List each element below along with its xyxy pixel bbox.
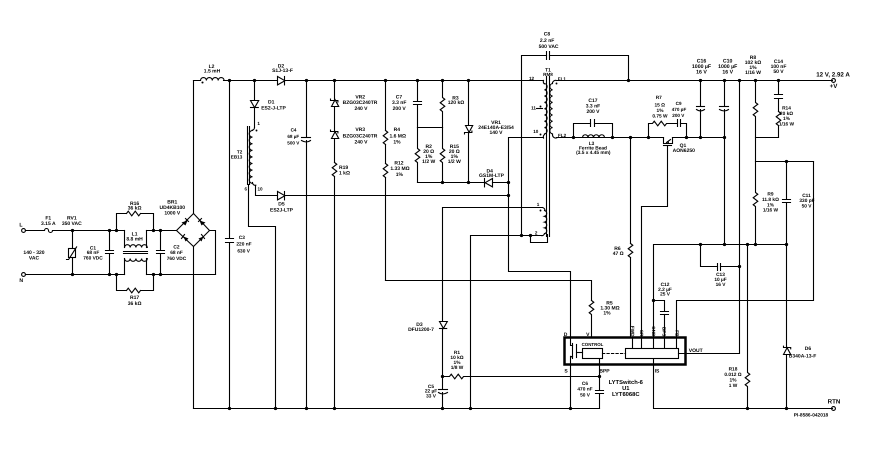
node C7 top [416,79,419,82]
capacitor C1 [83,231,113,275]
svg-text:R9: R9 [767,192,773,198]
node pin2 detour [529,234,532,237]
svg-text:1 kΩ: 1 kΩ [339,170,350,176]
wire V-sense feed to R5 [386,281,592,301]
resistor R9 [753,162,779,245]
node D3 C5 R1 junction [441,375,444,378]
svg-text:1%: 1% [657,108,665,114]
diode D3 [408,322,447,334]
node C2 top [159,229,162,232]
svg-text:500 V: 500 V [287,140,300,145]
diode D5 [270,192,294,214]
svg-text:1%: 1% [603,310,611,316]
wire V-sense column [385,81,387,281]
node C16 top [699,79,702,82]
svg-text:IS: IS [655,369,660,375]
node R8 top [754,79,757,82]
resistor R16 [117,201,154,231]
inductor L1 common-mode choke [124,231,148,275]
wire BPS pin riser [664,315,666,338]
U1 secondary block [626,349,679,359]
resistor R6 [613,244,633,258]
svg-text:16 V: 16 V [716,282,727,288]
svg-text:1%: 1% [730,378,738,384]
svg-text:8.8 mH: 8.8 mH [126,237,143,243]
transformer T1 bias winding [535,202,547,236]
svg-text:1/8 W: 1/8 W [451,365,464,371]
wire R8 R14 join to FB node [756,138,814,162]
svg-text:16 V: 16 V [696,69,707,75]
wire output rail [557,80,833,82]
svg-text:25 V: 25 V [660,292,671,298]
label 140-320 VAC [23,250,44,262]
svg-text:ES2J-LTP: ES2J-LTP [270,207,294,213]
svg-text:1: 1 [257,121,260,126]
resistor R2 [415,128,435,183]
svg-text:N: N [19,278,23,284]
wire L line [26,230,177,232]
svg-text:16 V: 16 V [722,69,733,75]
svg-text:DFU1200-7: DFU1200-7 [408,327,434,333]
U1 part labels [609,379,644,398]
svg-text:10: 10 [257,187,263,192]
node pin2 rail [469,407,472,410]
svg-text:C2: C2 [173,244,179,250]
svg-text:36 kΩ: 36 kΩ [128,206,142,212]
svg-text:68 µF: 68 µF [287,134,299,139]
U1 dashed link [603,353,626,355]
node R9 bottom [754,243,757,246]
node C2 bottom [159,273,162,276]
node D4 to drain riser [507,181,510,184]
terminal +V output [816,71,850,90]
node zener column bottom [333,407,336,410]
capacitor C14 [771,59,787,112]
svg-text:AON6250: AON6250 [673,148,695,154]
node C9 right [685,136,688,139]
svg-text:VAC: VAC [29,256,40,262]
svg-text:20 kΩ: 20 kΩ [780,111,793,117]
wire Q1 gate to SR pin [642,146,668,338]
svg-text:(3.5 x 4.45 mm): (3.5 x 4.45 mm) [576,150,611,156]
svg-text:1%: 1% [767,202,775,208]
resistor R14 [776,106,794,138]
svg-text:D: D [564,332,568,338]
resistor R1 [443,350,600,379]
node R6 top [629,136,632,139]
capacitor C4 [287,128,310,146]
svg-text:CONTROL: CONTROL [582,342,604,347]
svg-text:11.8 kΩ: 11.8 kΩ [762,197,779,203]
node D5 line to drain riser [507,194,510,197]
svg-text:0.012 Ω: 0.012 Ω [724,372,741,378]
zener VR3 [331,127,378,145]
resistor R8 [745,55,762,138]
svg-text:68 nF: 68 nF [170,250,183,256]
svg-text:3.15 A: 3.15 A [41,221,56,227]
resistor R12 [383,160,409,178]
svg-text:R18: R18 [729,367,738,373]
svg-text:EB13: EB13 [231,155,243,160]
svg-text:LYT6068C: LYT6068C [612,391,640,398]
svg-text:C8: C8 [544,32,551,38]
U1 internal mosfet [571,338,583,366]
transformer T1 [529,67,567,236]
wire BPP pin [599,359,601,409]
svg-text:15 Ω: 15 Ω [654,102,665,108]
wire D5 output to drain riser [285,195,509,197]
svg-text:200 V: 200 V [586,109,600,115]
node C16 bottom [699,136,702,139]
node R16 right [152,229,155,232]
wire IS pin to RTN rail [654,366,833,409]
capacitor C11 [783,162,815,245]
U1 pin labels [564,326,703,375]
node D6 bottom [785,407,788,410]
IC U1 box [565,338,686,365]
wire clamp mid junction [418,127,443,129]
resistor R15 [440,128,461,183]
node C10 gnd [723,243,726,246]
svg-text:630 V: 630 V [237,248,250,254]
svg-text:50 V: 50 V [580,393,591,399]
wire C3 column [229,81,231,409]
capacitor C9 [669,101,687,138]
svg-text:+V: +V [830,83,839,90]
wire bottom rail [194,408,600,410]
transformer T2 [231,121,263,192]
svg-text:470 nF: 470 nF [577,387,592,393]
svg-text:12 V, 2.92 A: 12 V, 2.92 A [816,71,850,78]
svg-text:RTN: RTN [828,399,841,406]
svg-text:1/16 W: 1/16 W [745,70,761,76]
wire primary top rail [194,80,544,82]
node R1 to BPP [598,375,601,378]
svg-text:LYTSwitch-6: LYTSwitch-6 [609,379,644,386]
svg-text:33 V: 33 V [426,393,437,399]
svg-text:140 V: 140 V [489,130,503,136]
node R18 bottom [746,407,749,410]
svg-text:C9: C9 [676,101,682,106]
capacitor C10 [718,59,737,245]
svg-text:PI-8586-042018: PI-8586-042018 [794,412,829,418]
svg-text:1/16 W: 1/16 W [779,121,795,127]
node C10 top [723,79,726,82]
svg-text:10: 10 [533,129,539,134]
node C13 left [699,243,702,246]
svg-text:RM8: RM8 [543,72,553,77]
svg-text:2.2 nF: 2.2 nF [540,38,554,44]
zener VR2 [331,95,378,112]
svg-text:12: 12 [529,76,535,81]
svg-text:1.5 mH: 1.5 mH [204,69,221,75]
terminal N [19,273,25,284]
wire BR1 plus to top rail [193,81,195,214]
node C12 jog on gnd riser [652,299,655,302]
svg-text:120 kΩ: 120 kΩ [448,100,465,106]
diode D4 [479,168,508,187]
wire T1 pin2 return [471,236,543,409]
svg-text:1%: 1% [783,116,791,122]
svg-text:36 kΩ: 36 kΩ [128,301,142,307]
node C17 right [611,136,614,139]
terminal L [19,223,25,233]
capacitor C13 [701,245,740,288]
node C8 left pin2 [520,234,523,237]
svg-text:200 V: 200 V [672,113,685,118]
svg-text:C4: C4 [291,128,297,133]
resistor R3 [440,81,464,128]
fuse F1 [41,216,56,233]
U1 secondary block pin stubs [633,338,677,366]
svg-text:C3: C3 [239,235,245,241]
svg-text:1%: 1% [396,172,404,178]
svg-text:GS1M-LTP: GS1M-LTP [479,173,505,179]
diode D1 [251,81,287,128]
wire FB pin line [677,162,814,338]
svg-text:2: 2 [535,231,538,236]
wire T1 pin2 detour [531,235,548,243]
wire C4 column [306,81,308,409]
resistor R7 [649,95,669,137]
node R3 top [441,79,444,82]
node T2 pin6 rail [274,407,277,410]
node C13 right on VOUT riser [738,265,741,268]
wire zener column [334,81,336,409]
svg-text:330 pF: 330 pF [799,198,814,204]
node VR1 bottom [467,181,470,184]
wire T1 pin10 drain route [509,138,571,338]
node C3 bottom [228,407,231,410]
node C1 bottom [108,273,111,276]
wire GND pin riser and gnd line [654,245,787,338]
node C10 switchwire [723,136,726,139]
svg-text:0.75 W: 0.75 W [652,114,668,120]
svg-text:220 nF: 220 nF [236,242,251,248]
svg-text:D6: D6 [805,346,812,352]
capacitor C8 [522,32,629,236]
svg-text:1000 V: 1000 V [164,211,181,217]
svg-text:50 V: 50 V [773,69,784,75]
terminal RTN [828,399,841,411]
node D1 top [253,79,256,82]
wire BR1 AC2 return [210,231,216,275]
U1 control block [582,342,604,359]
node C4 top [305,79,308,82]
node C11 top [785,160,788,163]
wire N line [26,274,216,276]
node V-sense top [384,79,387,82]
svg-text:47 Ω: 47 Ω [613,251,624,257]
capacitor C12 [654,282,672,315]
node R7 left [647,136,650,139]
capacitor C2 [157,231,187,275]
svg-text:1/2 W: 1/2 W [422,159,435,165]
node C3 top [228,79,231,82]
capacitor C17 [574,98,613,137]
svg-text:50 V: 50 V [802,204,813,210]
svg-text:D1: D1 [268,99,275,105]
capacitor C5 [425,384,448,400]
node RV1 top [71,229,74,232]
inductor L3 ferrite bead [576,135,611,156]
capacitor C7 [392,81,422,128]
wire BR1 minus to bottom rail [193,247,195,409]
zener VR1 [465,81,515,183]
node VR1 top [467,79,470,82]
node RV1 bottom [71,273,74,276]
svg-text:R7: R7 [656,95,662,101]
node R16 left [115,229,118,232]
node VOUT rail [738,79,741,82]
resistor R18 [724,245,749,409]
node C11 bottom gnd end [785,243,788,246]
node S pin rail [569,407,572,410]
transistor Q1 [664,138,696,155]
diode D2 [272,63,293,85]
wire D3 to C5 [442,329,444,409]
inductor L2 [201,64,225,84]
svg-text:1/2 W: 1/2 W [448,159,461,165]
wire VOUT pin riser [679,81,740,354]
svg-text:1%: 1% [393,139,401,145]
node C8 right rail [627,79,630,82]
svg-text:470 pF: 470 pF [672,107,687,112]
node C17 left [572,136,575,139]
svg-text:6: 6 [245,187,248,192]
svg-text:760 VDC: 760 VDC [167,256,187,262]
diode D6 [784,245,817,409]
svg-text:C6: C6 [582,381,588,387]
svg-text:R14: R14 [782,106,791,112]
svg-text:VR3: VR3 [355,127,365,133]
wire T1 pin1 to D3 [443,208,543,322]
resistor R5 [589,300,619,337]
svg-text:200 V: 200 V [393,106,407,112]
svg-text:BPP: BPP [599,369,610,375]
svg-text:500 VAC: 500 VAC [539,44,559,50]
resistor R19 [332,163,350,177]
svg-text:B340A-13-F: B340A-13-F [789,354,817,360]
svg-text:1/16 W: 1/16 W [763,208,779,214]
svg-text:R4: R4 [394,127,401,133]
svg-text:760 VDC: 760 VDC [83,255,103,261]
resistor R4 [383,127,406,145]
svg-text:1 W: 1 W [729,383,738,389]
wire T2 pin6 return [249,185,276,409]
svg-text:1: 1 [537,202,540,207]
wire FWD R6 column [630,138,632,338]
node C14 top [777,79,780,82]
svg-text:240 V: 240 V [354,106,368,112]
resistor R17 [117,275,154,307]
svg-text:350 VAC: 350 VAC [62,221,82,227]
capacitor C6 [577,381,603,399]
node R17 right [152,273,155,276]
svg-text:240 V: 240 V [354,139,368,145]
varistor RV1 [62,216,82,275]
bridge rectifier BR1 [160,199,210,246]
wire clamp bottom line [418,182,485,184]
node R15 bottom [441,181,444,184]
wire secondary switch node [557,137,725,139]
wire T2 pin10 to D5 [256,186,278,196]
node C4 bottom [305,407,308,410]
node R18 top [746,243,749,246]
node zener column top [333,79,336,82]
svg-text:68 nF: 68 nF [87,250,100,256]
capacitor C3 [226,235,252,255]
wire S pin [570,366,572,409]
svg-text:11: 11 [531,106,536,111]
svg-text:C11: C11 [802,193,811,199]
svg-text:S1J-13-F: S1J-13-F [272,68,293,74]
node C5 bottom [441,407,444,410]
capacitor C16 [692,59,711,138]
node C1 top [108,229,111,232]
node R17 left [115,273,118,276]
svg-text:ES2-J-LTP: ES2-J-LTP [261,106,286,112]
